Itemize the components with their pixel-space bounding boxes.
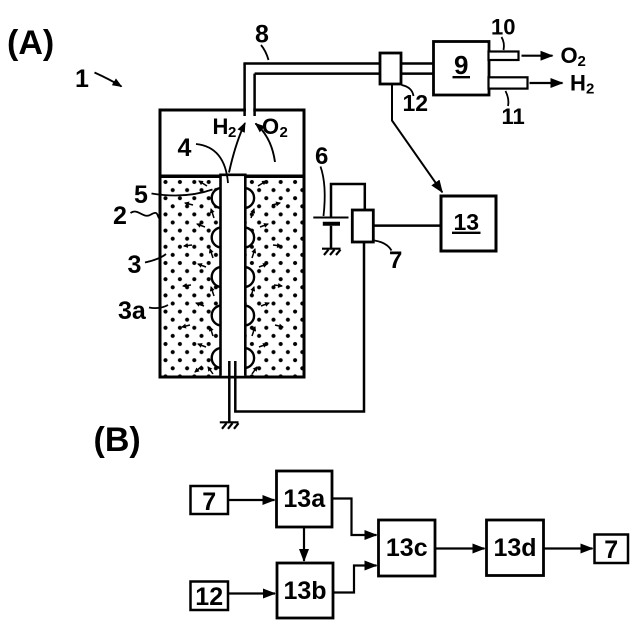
svg-text:12: 12 xyxy=(195,583,223,611)
B arrow 13a to 13b xyxy=(303,528,305,562)
bumps 5 left xyxy=(212,188,222,368)
B arrow 13c to 13d xyxy=(435,547,485,549)
svg-text:13c: 13c xyxy=(386,534,428,562)
electrode lead left wire xyxy=(228,361,231,422)
B arrow 13d to 7 xyxy=(544,547,593,549)
svg-text:13: 13 xyxy=(454,209,480,235)
B wire 13b to 13c xyxy=(333,566,377,593)
svg-text:2: 2 xyxy=(578,53,586,70)
B arrow 12 to 13b xyxy=(229,592,276,594)
pipe 8 opening mask xyxy=(246,106,253,116)
leader arrow for 1 xyxy=(95,73,122,87)
svg-text:7: 7 xyxy=(604,536,618,564)
svg-text:H: H xyxy=(570,71,586,96)
svg-text:1: 1 xyxy=(75,65,89,93)
H2 outlet arrow xyxy=(530,82,563,84)
controller box 13 xyxy=(441,196,496,251)
svg-text:2: 2 xyxy=(586,81,594,98)
electrode lead right wire to component 7 xyxy=(235,243,364,412)
B box 7 right xyxy=(595,535,629,564)
gas arrow left xyxy=(229,123,245,173)
svg-text:10: 10 xyxy=(491,15,515,40)
B wire 13a to 13c xyxy=(332,499,377,536)
radiating dashes right xyxy=(251,181,283,374)
battery 6 plates xyxy=(313,217,348,219)
svg-text:12: 12 xyxy=(403,90,429,116)
pipe 11 xyxy=(489,77,528,88)
gas arrow right xyxy=(256,124,276,163)
svg-text:6: 6 xyxy=(315,143,328,170)
svg-text:11: 11 xyxy=(502,104,525,129)
svg-text:13d: 13d xyxy=(494,534,537,562)
svg-text:5: 5 xyxy=(134,181,148,209)
bumps 5 right xyxy=(244,188,254,368)
O2 outlet arrow xyxy=(522,55,553,57)
svg-text:2: 2 xyxy=(228,124,236,141)
wire 12 to 13 with arrow xyxy=(392,85,442,193)
svg-text:H: H xyxy=(213,114,229,139)
svg-text:8: 8 xyxy=(255,21,269,49)
valve box 12 xyxy=(380,53,401,84)
battery 6 wires xyxy=(331,184,365,218)
svg-text:7: 7 xyxy=(202,488,216,516)
B box 13c xyxy=(379,520,436,576)
svg-text:(B): (B) xyxy=(94,421,141,459)
svg-text:7: 7 xyxy=(389,247,402,274)
svg-text:O: O xyxy=(262,114,279,139)
svg-text:3: 3 xyxy=(128,251,142,279)
B box 12 xyxy=(191,582,229,611)
svg-text:9: 9 xyxy=(454,50,468,80)
svg-text:3a: 3a xyxy=(118,297,147,325)
svg-text:2: 2 xyxy=(113,202,127,230)
B box 7 left xyxy=(191,486,229,514)
B box 13d xyxy=(487,520,544,576)
pipe 8 xyxy=(243,64,433,117)
svg-text:2: 2 xyxy=(280,124,288,141)
svg-text:4: 4 xyxy=(178,134,192,162)
liquid surface line xyxy=(162,175,303,179)
svg-text:(A): (A) xyxy=(7,24,54,62)
ground under tank xyxy=(220,422,239,429)
B arrow 7 to 13a xyxy=(229,499,275,501)
driver box 7 xyxy=(352,210,373,242)
svg-text:O: O xyxy=(561,43,578,68)
svg-text:13a: 13a xyxy=(283,485,326,513)
liquid 3 dotted region xyxy=(162,178,303,376)
B box 13b xyxy=(277,563,333,618)
ground under battery xyxy=(322,249,341,255)
svg-text:13b: 13b xyxy=(284,577,327,605)
pipe 10 xyxy=(489,52,519,61)
B box 13a xyxy=(277,471,333,527)
battery to ground wire xyxy=(330,226,333,249)
separator box 9 xyxy=(434,42,490,96)
wire 7 to 13 xyxy=(374,224,441,227)
electrode channel 4 xyxy=(221,175,246,376)
tank 2 outer wall xyxy=(160,110,304,377)
radiating dashes left xyxy=(182,181,214,374)
